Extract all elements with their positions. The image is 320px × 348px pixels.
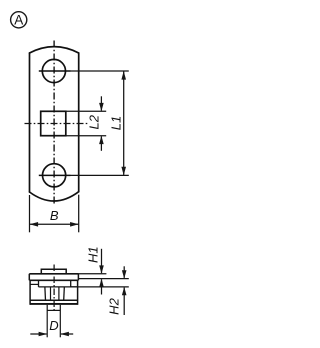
svg-text:B: B bbox=[50, 208, 59, 223]
svg-text:L1: L1 bbox=[109, 116, 124, 130]
svg-text:A: A bbox=[14, 13, 23, 28]
svg-text:H2: H2 bbox=[107, 297, 122, 314]
svg-text:L2: L2 bbox=[86, 114, 101, 129]
svg-text:H1: H1 bbox=[85, 246, 100, 263]
svg-text:D: D bbox=[49, 318, 58, 333]
